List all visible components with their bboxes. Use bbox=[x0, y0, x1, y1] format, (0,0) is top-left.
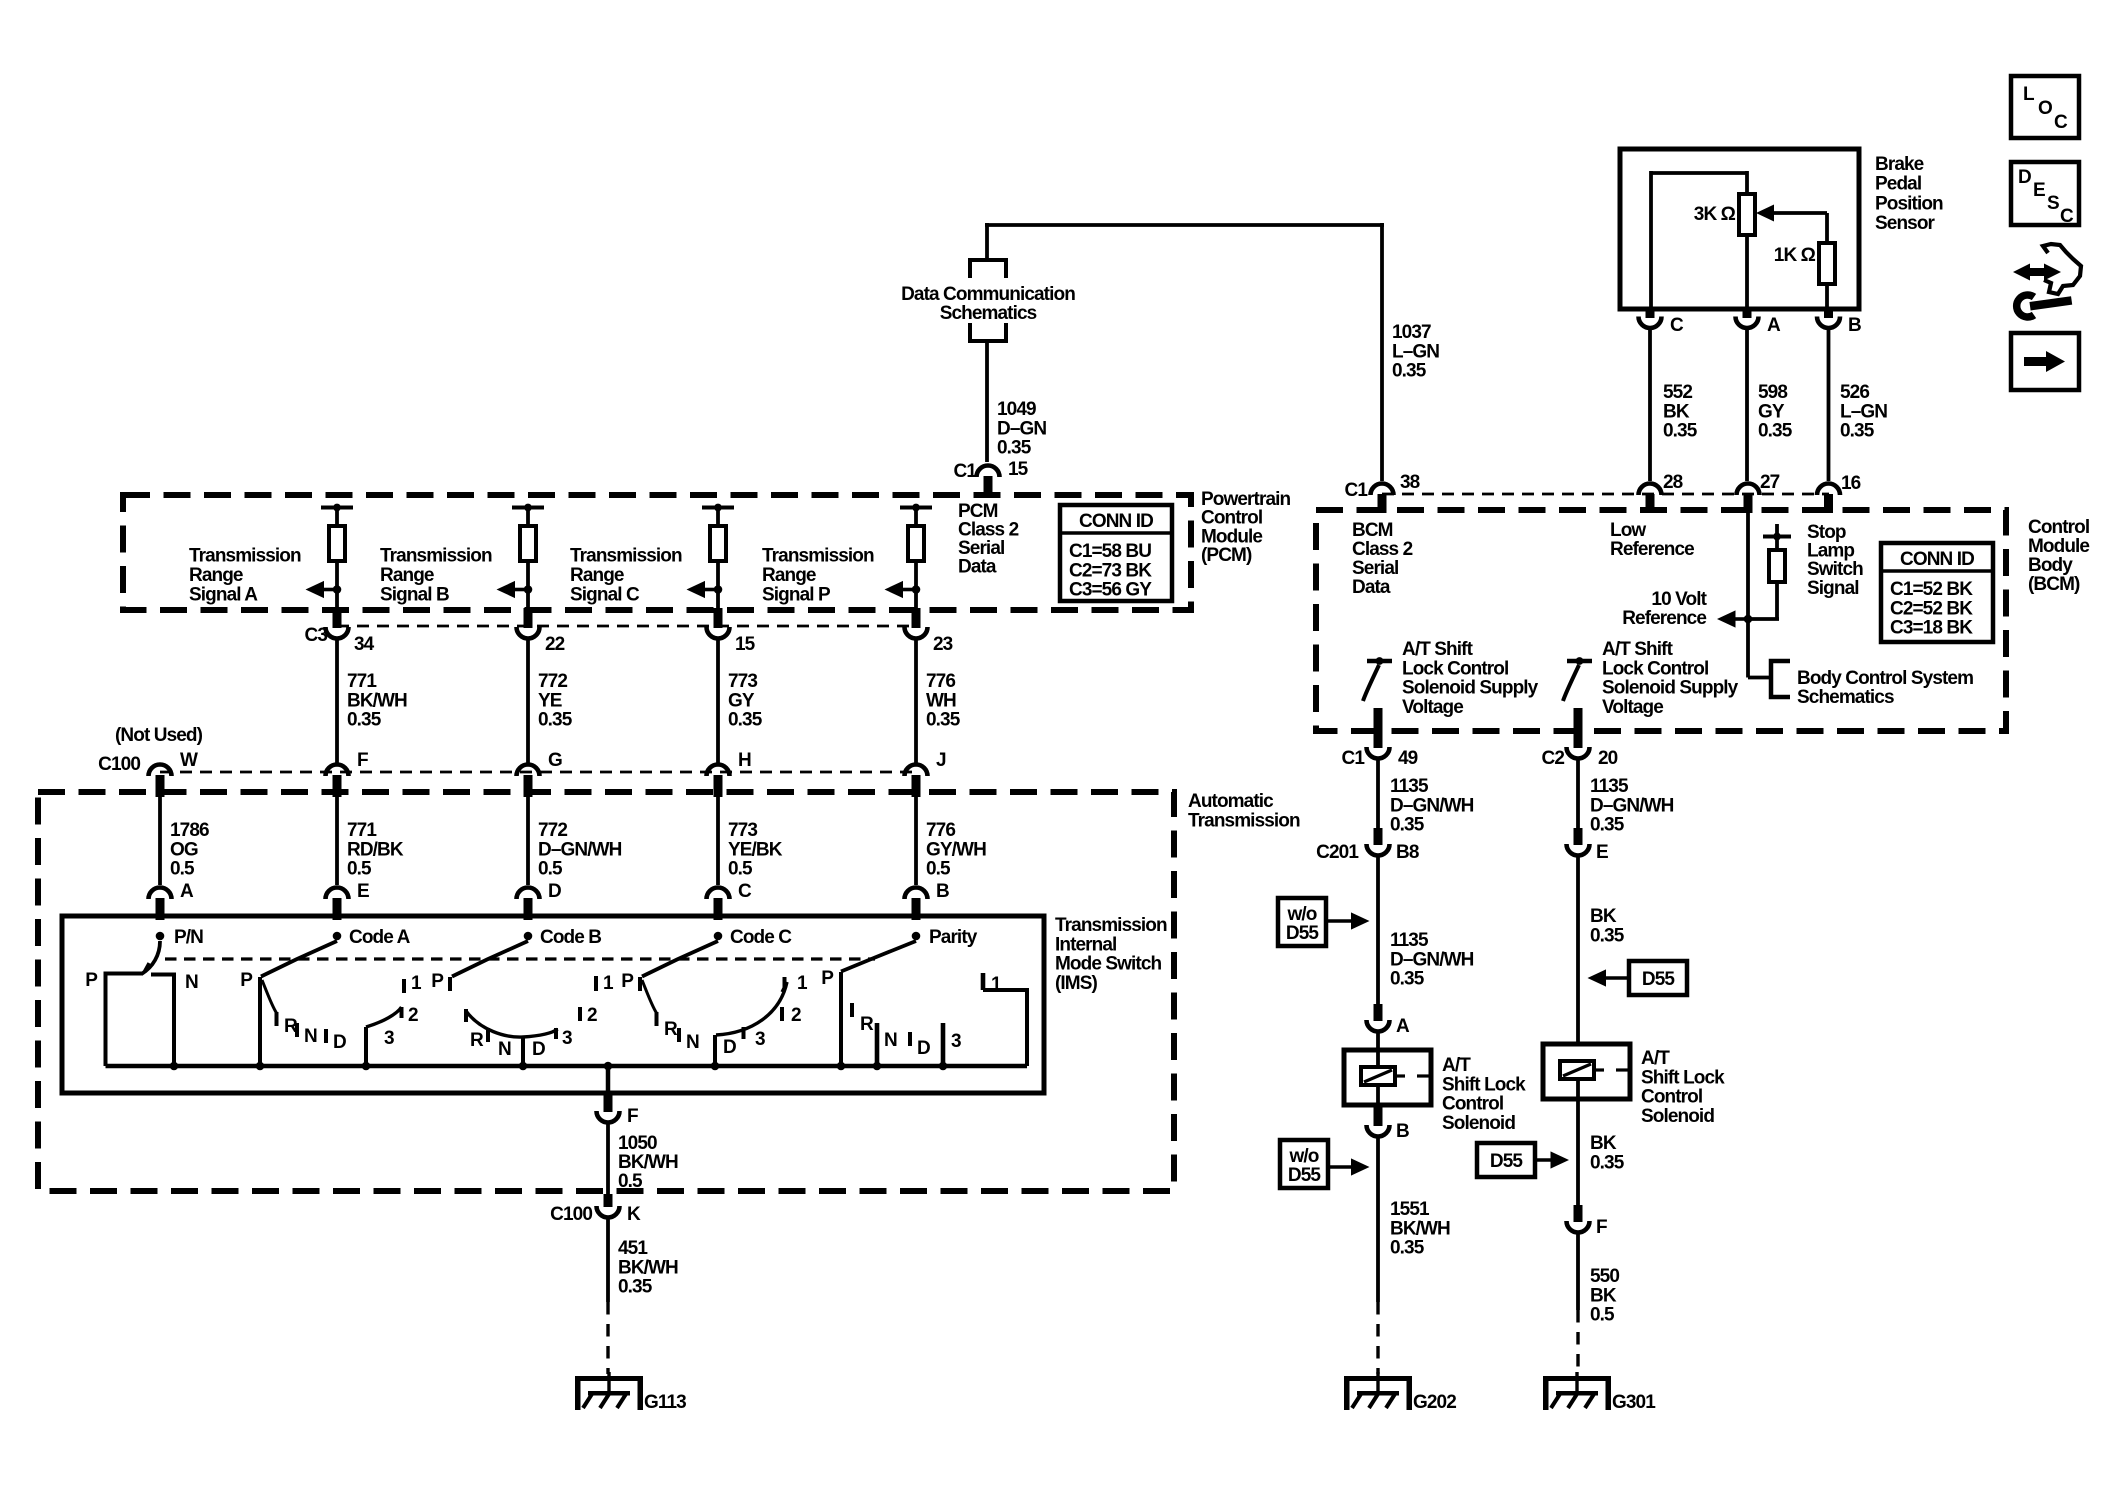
svg-text:1786: 1786 bbox=[170, 820, 209, 841]
wire connector line C100 (dashed) bbox=[160, 771, 916, 774]
connector C100 pin H bbox=[707, 765, 730, 776]
svg-text:Position: Position bbox=[1875, 193, 1943, 214]
svg-text:773: 773 bbox=[728, 671, 757, 692]
node w/o D55 flag (lower) bbox=[1280, 1140, 1328, 1188]
contact R N ticks (Code C) bbox=[642, 980, 657, 1013]
connector IMS pin C bbox=[707, 888, 730, 900]
table CONN ID (BCM) C1=52 BK C2=52 BK C3=18 BK bbox=[1881, 543, 1993, 642]
svg-text:C1: C1 bbox=[1345, 480, 1369, 501]
svg-text:Internal: Internal bbox=[1055, 934, 1116, 955]
wire 772 D–GN/WH 0.5 bbox=[526, 796, 530, 885]
svg-text:D: D bbox=[532, 1039, 545, 1060]
svg-text:A: A bbox=[1767, 315, 1781, 336]
svg-text:CONN ID: CONN ID bbox=[1900, 549, 1974, 570]
svg-text:C3=56 GY: C3=56 GY bbox=[1069, 580, 1152, 601]
svg-text:1135: 1135 bbox=[1390, 930, 1429, 951]
svg-text:F: F bbox=[627, 1106, 638, 1127]
svg-text:Transmission: Transmission bbox=[1055, 915, 1167, 936]
svg-text:0.35: 0.35 bbox=[1390, 1238, 1425, 1259]
svg-text:F: F bbox=[357, 750, 368, 771]
svg-text:(BCM): (BCM) bbox=[2028, 574, 2080, 595]
svg-text:D: D bbox=[917, 1038, 930, 1059]
svg-text:Solenoid Supply: Solenoid Supply bbox=[1602, 678, 1739, 699]
svg-text:Code C: Code C bbox=[730, 927, 792, 948]
wire IMS common bus bbox=[106, 1064, 1028, 1069]
wire 526 L-GN 0.35 bbox=[1827, 330, 1831, 481]
wire 1049 D-GN 0.35 to PCM C1 pin 15 bbox=[985, 341, 989, 462]
svg-text:D–GN/WH: D–GN/WH bbox=[538, 839, 622, 860]
wire top horizontal run between data-comm stub and BCM drop bbox=[985, 223, 1384, 227]
svg-text:B8: B8 bbox=[1396, 842, 1419, 863]
svg-text:Schematics: Schematics bbox=[1797, 687, 1894, 708]
wire 776 GY/WH 0.5 bbox=[914, 796, 918, 885]
wire 773 YE/BK 0.5 bbox=[716, 796, 720, 885]
svg-text:A/T Shift: A/T Shift bbox=[1602, 639, 1674, 660]
svg-text:R: R bbox=[664, 1019, 678, 1040]
svg-text:Body: Body bbox=[2028, 555, 2073, 576]
svg-text:Low: Low bbox=[1610, 520, 1646, 541]
wire 1135 D-GN/WH 0.35 (left chain mid) bbox=[1376, 858, 1380, 1006]
wire connector line BCM top row (dashed) bbox=[1382, 493, 1829, 496]
svg-text:0.5: 0.5 bbox=[1590, 1305, 1615, 1326]
module PCM dashed box bbox=[123, 495, 1191, 610]
svg-text:D: D bbox=[333, 1032, 346, 1053]
svg-text:552: 552 bbox=[1663, 382, 1692, 403]
connector C100 pin J bbox=[905, 765, 928, 776]
svg-text:R: R bbox=[860, 1014, 874, 1035]
switch Code A (IMS) bbox=[333, 932, 342, 941]
switch P/N (IMS) bbox=[156, 932, 165, 941]
wire 598 GY 0.35 bbox=[1745, 330, 1749, 481]
svg-text:E: E bbox=[1596, 842, 1608, 863]
svg-text:Automatic: Automatic bbox=[1188, 791, 1274, 812]
svg-text:G113: G113 bbox=[644, 1392, 686, 1413]
wire IMS internal dashed link line bbox=[165, 957, 875, 960]
svg-text:0.35: 0.35 bbox=[1590, 1152, 1625, 1173]
svg-text:A/T: A/T bbox=[1442, 1055, 1471, 1076]
wire 10 Volt Reference arrow bbox=[1748, 617, 1779, 621]
ground G202 bbox=[1376, 1372, 1379, 1392]
connector C100 pin K bbox=[604, 1194, 613, 1207]
connector IMS pin D bbox=[517, 888, 540, 900]
svg-text:1: 1 bbox=[603, 973, 614, 994]
svg-text:CONN ID: CONN ID bbox=[1079, 511, 1153, 532]
wire connector line C3 (dashed) bbox=[337, 625, 916, 628]
svg-text:Transmission: Transmission bbox=[1188, 810, 1300, 831]
wire D contact to bus (Code C) bbox=[713, 1035, 717, 1066]
module Control Module Body (BCM) dashed box bbox=[1316, 510, 2006, 731]
svg-text:772: 772 bbox=[538, 671, 567, 692]
svg-text:BCM: BCM bbox=[1352, 520, 1393, 541]
connector BCM pin 28 bbox=[1639, 484, 1662, 495]
svg-text:Control: Control bbox=[1641, 1087, 1702, 1108]
svg-text:E: E bbox=[357, 881, 369, 902]
svg-text:Brake: Brake bbox=[1875, 154, 1924, 175]
svg-text:YE: YE bbox=[538, 690, 562, 711]
node Data Communication Schematics off-page reference bbox=[970, 260, 1006, 278]
svg-text:L–GN: L–GN bbox=[1840, 401, 1887, 422]
svg-text:E: E bbox=[2033, 180, 2045, 201]
svg-text:1: 1 bbox=[411, 973, 422, 994]
svg-text:0.5: 0.5 bbox=[347, 859, 372, 880]
svg-text:27: 27 bbox=[1760, 472, 1780, 493]
svg-text:0.35: 0.35 bbox=[1590, 815, 1625, 836]
svg-text:Shift Lock: Shift Lock bbox=[1442, 1074, 1526, 1095]
wire 772 YE 0.35 bbox=[526, 641, 530, 764]
connector BCM pin 27 bbox=[1737, 484, 1760, 495]
svg-text:Range: Range bbox=[762, 565, 816, 586]
wire to C3 connector bbox=[526, 590, 530, 613]
connector BCM C1 pin 38 bbox=[1371, 484, 1394, 495]
wire P contact to bus (Parity) bbox=[839, 972, 843, 1066]
svg-text:38: 38 bbox=[1400, 472, 1420, 493]
svg-text:0.35: 0.35 bbox=[1758, 421, 1793, 442]
resistor Transmission Range Signal B (PCM internal) bbox=[512, 506, 544, 510]
svg-text:0.35: 0.35 bbox=[347, 710, 382, 731]
svg-text:550: 550 bbox=[1590, 1266, 1619, 1287]
svg-text:P: P bbox=[431, 971, 444, 992]
svg-text:Sensor: Sensor bbox=[1875, 213, 1936, 234]
connector C3 pin 23 bbox=[905, 627, 928, 639]
wire terminal 3 to bus (Parity) bbox=[941, 1023, 946, 1066]
svg-text:1050: 1050 bbox=[618, 1133, 657, 1154]
svg-text:C3=18 BK: C3=18 BK bbox=[1890, 618, 1973, 639]
svg-text:R: R bbox=[470, 1030, 484, 1051]
svg-text:598: 598 bbox=[1758, 382, 1787, 403]
connector pin F (right chain) bbox=[1574, 1205, 1583, 1222]
contact arc R N D (Code B) bbox=[464, 1009, 468, 1022]
connector C3 pin 34 bbox=[326, 627, 349, 639]
ground G301 bbox=[1575, 1372, 1578, 1392]
svg-text:D: D bbox=[723, 1037, 736, 1058]
wire dashed drop to ground (left chain) bbox=[1376, 1302, 1379, 1374]
svg-text:G: G bbox=[548, 750, 562, 771]
svg-text:1K Ω: 1K Ω bbox=[1774, 245, 1816, 266]
svg-text:Signal B: Signal B bbox=[380, 584, 449, 605]
svg-text:BK/WH: BK/WH bbox=[347, 690, 407, 711]
svg-text:Code B: Code B bbox=[540, 927, 601, 948]
svg-text:0.5: 0.5 bbox=[538, 859, 563, 880]
svg-text:Pedal: Pedal bbox=[1875, 174, 1921, 195]
svg-text:1551: 1551 bbox=[1390, 1199, 1430, 1220]
svg-text:0.5: 0.5 bbox=[728, 859, 753, 880]
connector C3 pin 15 bbox=[707, 627, 730, 639]
svg-text:w/o: w/o bbox=[1289, 1146, 1319, 1167]
svg-text:0.35: 0.35 bbox=[926, 710, 961, 731]
svg-text:P: P bbox=[85, 970, 98, 991]
svg-text:0.35: 0.35 bbox=[1840, 421, 1875, 442]
svg-text:OG: OG bbox=[170, 839, 198, 860]
module Transmission Internal Mode Switch (IMS) box bbox=[62, 916, 1044, 1093]
node w/o D55 flag (upper) bbox=[1278, 898, 1326, 946]
svg-text:Data: Data bbox=[1352, 577, 1391, 598]
node junction with signal arrow bbox=[524, 585, 533, 594]
svg-text:C: C bbox=[2060, 206, 2074, 227]
svg-text:WH: WH bbox=[926, 690, 956, 711]
switch Code C (IMS) bbox=[714, 932, 723, 941]
svg-text:Solenoid Supply: Solenoid Supply bbox=[1402, 678, 1539, 699]
svg-text:1: 1 bbox=[797, 973, 808, 994]
svg-text:Module: Module bbox=[2028, 536, 2089, 557]
svg-text:526: 526 bbox=[1840, 382, 1869, 403]
svg-text:D–GN/WH: D–GN/WH bbox=[1390, 949, 1474, 970]
svg-text:P/N: P/N bbox=[174, 927, 203, 948]
svg-text:2: 2 bbox=[791, 1005, 801, 1026]
connector solenoid pin A bbox=[1374, 1004, 1383, 1021]
svg-text:1049: 1049 bbox=[997, 399, 1036, 420]
svg-text:22: 22 bbox=[545, 634, 565, 655]
wire 771 RD/BK 0.5 bbox=[335, 796, 339, 885]
svg-text:RD/BK: RD/BK bbox=[347, 839, 404, 860]
wire to C3 connector bbox=[335, 590, 339, 613]
connector C100 pin F bbox=[326, 765, 349, 776]
switch A/T Shift Lock Control Solenoid Supply Voltage (C1) bbox=[1367, 659, 1392, 664]
wire 776 WH 0.35 bbox=[914, 641, 918, 764]
svg-text:0.35: 0.35 bbox=[997, 438, 1032, 459]
svg-text:D55: D55 bbox=[1490, 1151, 1523, 1172]
terminal 1 loop to bus (Parity) bbox=[981, 973, 986, 990]
connector pin E (right chain) bbox=[1574, 828, 1583, 845]
svg-text:Lock Control: Lock Control bbox=[1602, 658, 1708, 679]
svg-text:Control: Control bbox=[1442, 1094, 1503, 1115]
svg-text:773: 773 bbox=[728, 820, 757, 841]
module Brake Pedal Position Sensor box bbox=[1620, 149, 1859, 309]
module Automatic Transmission dashed box bbox=[38, 792, 1174, 1191]
svg-text:0.35: 0.35 bbox=[538, 710, 573, 731]
wire 451 BK/WH 0.35 bbox=[606, 1220, 610, 1303]
svg-text:0.35: 0.35 bbox=[1390, 815, 1425, 836]
svg-text:N: N bbox=[185, 972, 198, 993]
svg-text:D–GN: D–GN bbox=[997, 418, 1046, 439]
svg-text:Range: Range bbox=[189, 565, 243, 586]
wire N contact to bus bbox=[151, 975, 174, 1067]
svg-text:Data Communication: Data Communication bbox=[901, 284, 1075, 305]
svg-text:G301: G301 bbox=[1612, 1392, 1656, 1413]
svg-text:0.35: 0.35 bbox=[1392, 361, 1427, 382]
svg-text:Range: Range bbox=[380, 565, 434, 586]
svg-text:0.35: 0.35 bbox=[618, 1277, 653, 1298]
svg-text:D–GN/WH: D–GN/WH bbox=[1590, 795, 1674, 816]
svg-text:1037: 1037 bbox=[1392, 322, 1431, 343]
component A/T Shift Lock Control Solenoid (right) bbox=[1543, 1044, 1630, 1099]
svg-text:A: A bbox=[1396, 1016, 1410, 1037]
contact R D ticks (Parity) bbox=[850, 1003, 854, 1017]
switch Code B (IMS) bbox=[524, 932, 533, 941]
svg-text:YE/BK: YE/BK bbox=[728, 839, 783, 860]
svg-text:W: W bbox=[180, 750, 198, 771]
svg-text:D: D bbox=[548, 881, 561, 902]
svg-text:N: N bbox=[304, 1026, 317, 1047]
wire 550 BK 0.5 bbox=[1576, 1235, 1580, 1311]
svg-text:15: 15 bbox=[735, 634, 756, 655]
svg-text:2: 2 bbox=[587, 1005, 597, 1026]
svg-text:GY: GY bbox=[1758, 401, 1785, 422]
component A/T Shift Lock Control Solenoid (left) bbox=[1344, 1050, 1431, 1105]
svg-text:Body Control System: Body Control System bbox=[1797, 668, 1973, 689]
svg-text:3: 3 bbox=[755, 1029, 765, 1050]
connector C3 pin 22 bbox=[517, 627, 540, 639]
connector pin F (IMS output) bbox=[597, 1111, 620, 1123]
svg-text:20: 20 bbox=[1598, 748, 1618, 769]
wire dashed drop to ground bbox=[606, 1302, 609, 1374]
svg-text:D55: D55 bbox=[1288, 1165, 1321, 1186]
svg-text:BK: BK bbox=[1663, 401, 1690, 422]
svg-text:Mode Switch: Mode Switch bbox=[1055, 954, 1162, 975]
svg-text:Shift Lock: Shift Lock bbox=[1641, 1067, 1725, 1088]
wire D contact to bus (Code B) bbox=[521, 1037, 525, 1066]
svg-text:B: B bbox=[1396, 1121, 1409, 1142]
wire P contact to bus bbox=[258, 977, 262, 1066]
svg-text:Signal A: Signal A bbox=[189, 584, 258, 605]
switch Parity (IMS) bbox=[912, 932, 921, 941]
svg-text:B: B bbox=[1848, 315, 1861, 336]
svg-text:O: O bbox=[2038, 98, 2052, 119]
svg-text:F: F bbox=[1596, 1217, 1607, 1238]
wire dashed drop to ground (right chain) bbox=[1576, 1310, 1579, 1374]
table CONN ID (PCM) C1=58 BU C2=73 BK C3=56 GY bbox=[1060, 505, 1172, 601]
icon wrench with double arrow bbox=[2013, 264, 2030, 281]
terminal 1 (Code A) bbox=[402, 979, 406, 993]
svg-text:776: 776 bbox=[926, 820, 955, 841]
connector C100 pin G bbox=[517, 765, 540, 776]
svg-text:771: 771 bbox=[347, 820, 377, 841]
svg-text:0.35: 0.35 bbox=[1663, 421, 1698, 442]
svg-text:C201: C201 bbox=[1316, 842, 1359, 863]
node junction with signal arrow bbox=[333, 585, 342, 594]
node Body Control System Schematics off-page bracket bbox=[1771, 661, 1790, 697]
svg-text:H: H bbox=[738, 750, 751, 771]
svg-text:0.5: 0.5 bbox=[926, 859, 951, 880]
svg-text:C: C bbox=[738, 881, 752, 902]
svg-text:771: 771 bbox=[347, 671, 377, 692]
svg-text:N: N bbox=[498, 1039, 511, 1060]
svg-text:D–GN/WH: D–GN/WH bbox=[1390, 795, 1474, 816]
svg-text:15: 15 bbox=[1008, 459, 1029, 480]
terminal 2 with wiper curve (Code A) bbox=[366, 1007, 402, 1027]
wire 773 GY 0.35 bbox=[716, 641, 720, 764]
svg-text:3: 3 bbox=[562, 1028, 572, 1049]
wire 1135 D-GN/WH 0.35 (left chain upper) bbox=[1376, 761, 1380, 830]
wiper arc D to 1 (Code C) bbox=[716, 982, 787, 1035]
svg-text:Data: Data bbox=[958, 557, 997, 578]
svg-text:Reference: Reference bbox=[1622, 608, 1706, 629]
connector C1 pin 49 bbox=[1374, 708, 1383, 748]
svg-text:GY: GY bbox=[728, 690, 755, 711]
ground G113 bbox=[607, 1372, 610, 1392]
connector sensor pin B bbox=[1824, 308, 1833, 318]
svg-text:Voltage: Voltage bbox=[1402, 697, 1463, 718]
wire to C3 connector bbox=[716, 590, 720, 613]
connector sensor pin C bbox=[1646, 308, 1655, 318]
resistor Transmission Range Signal A (PCM internal) bbox=[321, 506, 353, 510]
svg-text:(Not Used): (Not Used) bbox=[115, 725, 203, 746]
svg-text:Code A: Code A bbox=[349, 927, 411, 948]
svg-text:C2=73 BK: C2=73 BK bbox=[1069, 560, 1152, 581]
resistor Transmission Range Signal P (PCM internal) bbox=[900, 506, 932, 510]
wire 552 BK 0.35 bbox=[1648, 330, 1652, 481]
svg-text:C100: C100 bbox=[98, 754, 140, 775]
svg-text:49: 49 bbox=[1398, 748, 1418, 769]
node IMS output tap bbox=[604, 1062, 613, 1071]
connector BCM pin 16 bbox=[1817, 484, 1840, 495]
wire 1135 D-GN/WH 0.35 (right chain upper) bbox=[1576, 761, 1580, 830]
svg-text:Transmission: Transmission bbox=[570, 546, 682, 567]
svg-text:Class 2: Class 2 bbox=[1352, 539, 1413, 560]
resistor stop lamp (BCM internal) bbox=[1775, 524, 1779, 536]
svg-text:A: A bbox=[180, 881, 194, 902]
svg-text:C100: C100 bbox=[550, 1204, 592, 1225]
svg-text:Solenoid: Solenoid bbox=[1442, 1113, 1515, 1134]
svg-text:Signal: Signal bbox=[1807, 578, 1859, 599]
connector C100 pin W bbox=[149, 765, 172, 776]
svg-text:0.35: 0.35 bbox=[728, 710, 763, 731]
svg-text:BK: BK bbox=[1590, 1285, 1617, 1306]
svg-text:B: B bbox=[936, 881, 949, 902]
wire BK 0.35 (right chain upper) bbox=[1576, 858, 1580, 1045]
svg-text:0.35: 0.35 bbox=[1390, 969, 1425, 990]
svg-text:Transmission: Transmission bbox=[380, 546, 492, 567]
svg-text:Voltage: Voltage bbox=[1602, 697, 1663, 718]
icon LOC box bbox=[2011, 76, 2079, 138]
svg-text:Signal P: Signal P bbox=[762, 584, 831, 605]
svg-text:P: P bbox=[821, 968, 834, 989]
svg-text:3K Ω: 3K Ω bbox=[1694, 204, 1736, 225]
node junction with signal arrow bbox=[912, 585, 921, 594]
svg-text:Schematics: Schematics bbox=[940, 303, 1037, 324]
svg-text:C1: C1 bbox=[954, 461, 978, 482]
wire sensor internal top link bbox=[1651, 171, 1747, 175]
wiper arrow into 3K resistor bbox=[1756, 205, 1774, 222]
svg-text:K: K bbox=[627, 1204, 641, 1225]
svg-text:C1=58 BU: C1=58 BU bbox=[1069, 541, 1151, 562]
svg-text:0.5: 0.5 bbox=[170, 859, 195, 880]
svg-text:10 Volt: 10 Volt bbox=[1651, 589, 1707, 610]
svg-text:1135: 1135 bbox=[1390, 776, 1429, 797]
svg-text:Reference: Reference bbox=[1610, 539, 1694, 560]
svg-text:D55: D55 bbox=[1286, 923, 1319, 944]
svg-text:3: 3 bbox=[384, 1028, 394, 1049]
switch A/T Shift Lock Control Solenoid Supply Voltage (C2) bbox=[1567, 659, 1592, 664]
svg-text:23: 23 bbox=[933, 634, 953, 655]
svg-text:BK/WH: BK/WH bbox=[618, 1257, 678, 1278]
svg-text:N: N bbox=[884, 1030, 897, 1051]
wire BCM pin 27 internal drop bbox=[1746, 513, 1750, 678]
wire N contact to bus (Parity) bbox=[875, 1023, 880, 1066]
terminal 1 and 2 ticks (Code B) bbox=[594, 976, 598, 991]
svg-text:BK/WH: BK/WH bbox=[1390, 1218, 1450, 1239]
svg-text:BK: BK bbox=[1590, 906, 1617, 927]
icon forward arrow box bbox=[2011, 333, 2079, 390]
svg-text:772: 772 bbox=[538, 820, 567, 841]
svg-text:BK: BK bbox=[1590, 1133, 1617, 1154]
svg-text:G202: G202 bbox=[1413, 1392, 1456, 1413]
svg-text:1135: 1135 bbox=[1590, 776, 1629, 797]
resistor Transmission Range Signal C (PCM internal) bbox=[702, 506, 734, 510]
resistor 1K ohm bbox=[1819, 243, 1835, 284]
connector IMS pin A bbox=[149, 888, 172, 900]
svg-text:Solenoid: Solenoid bbox=[1641, 1106, 1714, 1127]
wire to C3 connector bbox=[914, 590, 918, 613]
svg-text:Serial: Serial bbox=[1352, 558, 1398, 579]
connector C201 pin B8 bbox=[1374, 828, 1383, 845]
svg-text:Range: Range bbox=[570, 565, 624, 586]
svg-text:C1: C1 bbox=[1342, 748, 1366, 769]
svg-text:0.5: 0.5 bbox=[618, 1171, 643, 1192]
svg-text:C: C bbox=[2054, 112, 2068, 133]
svg-text:2: 2 bbox=[408, 1005, 418, 1026]
wire 1050 BK/WH 0.5 bbox=[606, 1125, 610, 1197]
terminal ticks 1 2 3 (Code C) bbox=[783, 977, 787, 990]
